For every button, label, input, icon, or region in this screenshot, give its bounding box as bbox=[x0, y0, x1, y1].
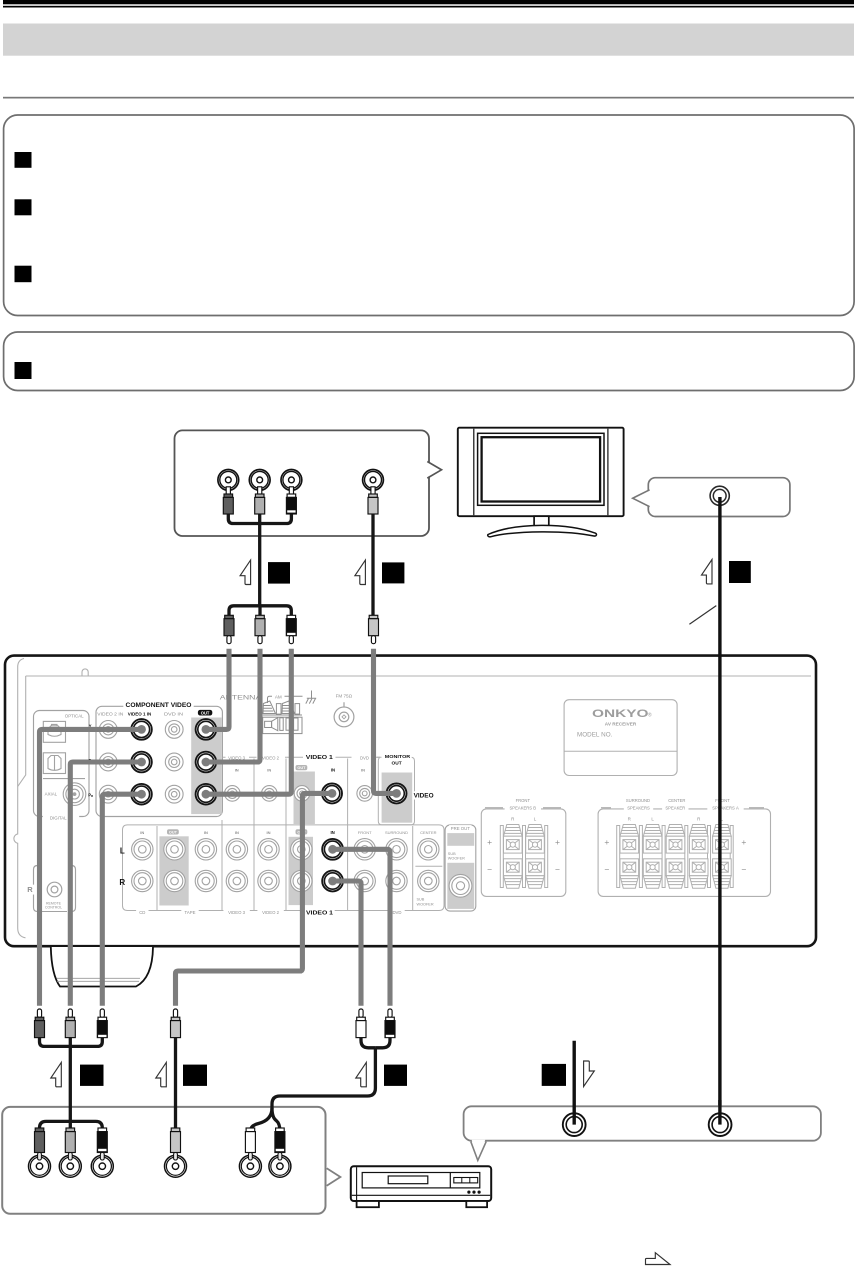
audio gray jacks bbox=[132, 839, 153, 860]
svg-text:SPEAKERS A: SPEAKERS A bbox=[712, 805, 739, 810]
antenna jack 1 bbox=[563, 1113, 586, 1136]
svg-text:IN: IN bbox=[267, 767, 271, 772]
audio cable merge + route to DVD box bbox=[361, 1037, 375, 1048]
plug audio R box (black) bbox=[275, 1128, 285, 1160]
composite gray jacks bbox=[225, 786, 241, 802]
component active jacks VIDEO1 IN + OUT bbox=[131, 719, 152, 740]
composite cable down bbox=[174, 1037, 177, 1131]
plug audio L up (white) bbox=[356, 1009, 366, 1038]
plug video down bbox=[369, 615, 379, 643]
plug PB up bbox=[65, 1009, 75, 1038]
plug Y (dark) bbox=[223, 487, 233, 514]
svg-text:ONKYO: ONKYO bbox=[592, 708, 649, 720]
top rule thick bbox=[3, 0, 854, 4]
svg-text:−: − bbox=[487, 865, 492, 875]
svg-text:SUB: SUB bbox=[417, 898, 425, 902]
plug PR box bbox=[97, 1128, 107, 1160]
svg-text:IN: IN bbox=[331, 767, 335, 772]
step label A (component) bbox=[240, 560, 251, 584]
svg-text:SURROUND: SURROUND bbox=[385, 830, 408, 835]
cable: component PR IN bbox=[102, 794, 141, 1006]
svg-text:PR: PR bbox=[88, 792, 94, 798]
svg-text:VIDEO 1 IN: VIDEO 1 IN bbox=[128, 711, 152, 716]
svg-text:+: + bbox=[604, 837, 609, 847]
svg-text:VIDEO 1: VIDEO 1 bbox=[306, 911, 333, 917]
component split in box bbox=[40, 1121, 103, 1129]
REMOTE CONTROL block bbox=[25, 866, 75, 912]
svg-text:VIDEO 3: VIDEO 3 bbox=[228, 910, 246, 915]
svg-text:R: R bbox=[119, 878, 125, 887]
audio active jacks VIDEO1 IN bbox=[322, 839, 343, 860]
component cable (TV end): bundle bbox=[228, 514, 291, 524]
svg-text:−: − bbox=[741, 865, 746, 875]
svg-text:SUB: SUB bbox=[448, 852, 456, 856]
FM 75ohm jack bbox=[334, 694, 354, 727]
svg-text:WOOFER: WOOFER bbox=[417, 903, 434, 907]
antenna long cable end over jack2 bbox=[718, 1100, 721, 1125]
bullet 3 bbox=[15, 266, 32, 283]
svg-text:FRONT: FRONT bbox=[516, 798, 531, 803]
svg-text:DVD IN: DVD IN bbox=[164, 711, 183, 716]
FRONT SPEAKERS B group bbox=[481, 798, 566, 896]
svg-text:−: − bbox=[555, 865, 560, 875]
ONKYO nameplate bbox=[564, 700, 677, 776]
svg-text:ANTENNA: ANTENNA bbox=[220, 694, 263, 701]
svg-text:OPTICAL: OPTICAL bbox=[65, 714, 84, 719]
svg-text:VIDEO 2: VIDEO 2 bbox=[262, 910, 280, 915]
svg-text:IN: IN bbox=[140, 830, 144, 835]
svg-text:AXIAL: AXIAL bbox=[45, 792, 58, 797]
svg-text:OUT: OUT bbox=[169, 831, 178, 835]
plug Y down bbox=[224, 615, 234, 643]
plug Y up bbox=[35, 1009, 45, 1038]
cable: monitor out video stub bbox=[374, 649, 397, 794]
svg-text:SURROUND: SURROUND bbox=[626, 798, 650, 803]
callout box: DVD player outputs bbox=[2, 1107, 325, 1214]
cable: component Y OUT stub bbox=[206, 649, 229, 730]
component cable splitter above receiver bbox=[229, 606, 291, 616]
step label D (component, bottom) bbox=[51, 1062, 62, 1086]
plug composite up bbox=[171, 1009, 181, 1038]
svg-text:VIDEO 1: VIDEO 1 bbox=[306, 755, 333, 761]
plug audio L box (white) bbox=[245, 1128, 255, 1160]
svg-text:IN: IN bbox=[235, 767, 239, 772]
gray plug caps in active jacks bbox=[202, 725, 211, 734]
plug audio R up (black) bbox=[385, 1009, 395, 1038]
svg-text:CENTER: CENTER bbox=[668, 798, 685, 803]
DVD player illustration bbox=[351, 1166, 491, 1207]
heading bar bbox=[3, 24, 854, 56]
cable: component Y IN bbox=[40, 729, 142, 1005]
VIDEO label (monitor) bbox=[413, 791, 435, 799]
svg-text:DVD: DVD bbox=[360, 755, 369, 760]
PRE OUT box bbox=[445, 825, 476, 911]
top rule thin bbox=[3, 6, 854, 8]
cable: component PB IN bbox=[70, 762, 141, 1006]
callout box: TV component + video inputs bbox=[175, 430, 430, 536]
antenna stub cable into jack1 bbox=[573, 1041, 576, 1125]
step label B (video) bbox=[355, 560, 366, 584]
bullet 1 bbox=[15, 152, 32, 168]
cable: component PR OUT stub bbox=[206, 649, 291, 794]
svg-text:AV RECEIVER: AV RECEIVER bbox=[605, 722, 637, 727]
svg-text:IN: IN bbox=[361, 767, 365, 772]
svg-text:IN: IN bbox=[204, 830, 208, 835]
SURROUND/CENTER/FRONT A speaker group bbox=[598, 798, 770, 896]
svg-text:CONTROL: CONTROL bbox=[45, 906, 62, 910]
svg-text:PRE OUT: PRE OUT bbox=[451, 826, 470, 831]
plug PB (gray) bbox=[255, 487, 265, 514]
audio section box bbox=[123, 825, 445, 911]
antenna cable leader line bbox=[689, 606, 716, 625]
step label F (audio, bottom) bbox=[356, 1062, 367, 1086]
panel inner contour bbox=[14, 659, 26, 938]
svg-text:+: + bbox=[487, 837, 492, 847]
svg-text:VIDEO: VIDEO bbox=[414, 793, 434, 800]
step label G (antenna, bottom) bbox=[542, 1064, 566, 1086]
cable: audio VIDEO1 IN L bbox=[333, 849, 390, 1005]
step label E (video, bottom) bbox=[156, 1062, 167, 1086]
plug composite box bbox=[171, 1128, 181, 1160]
svg-text:CENTER: CENTER bbox=[420, 830, 437, 835]
bullet 4 bbox=[15, 362, 32, 379]
svg-text:VIDEO 2: VIDEO 2 bbox=[262, 755, 280, 760]
svg-text:AM: AM bbox=[275, 695, 282, 700]
antenna cable (long) bbox=[718, 497, 721, 1123]
bottom group labels bbox=[136, 909, 148, 916]
component gray jacks (VIDEO2 IN / DVD IN) bbox=[99, 721, 117, 739]
svg-text:SPEAKERS B: SPEAKERS B bbox=[510, 805, 537, 810]
antenna jack 2 bbox=[709, 1113, 732, 1136]
COMPONENT VIDEO group box bbox=[88, 701, 222, 817]
video cable (TV end) bbox=[371, 514, 374, 616]
plug PR up bbox=[97, 1009, 107, 1038]
DIGITAL IN block bbox=[34, 711, 90, 822]
svg-text:IN: IN bbox=[235, 830, 239, 835]
cable: audio VIDEO1 IN R bbox=[333, 881, 361, 1006]
svg-text:L: L bbox=[120, 846, 125, 855]
plug PR down bbox=[286, 615, 296, 643]
OUT tag (component) bbox=[198, 710, 212, 716]
svg-text:+: + bbox=[741, 837, 746, 847]
svg-text:®: ® bbox=[648, 711, 652, 718]
svg-text:IN: IN bbox=[267, 830, 271, 835]
svg-text:R: R bbox=[27, 885, 33, 894]
section rule bbox=[3, 97, 854, 99]
svg-text:FRONT: FRONT bbox=[358, 830, 372, 835]
svg-text:CD: CD bbox=[139, 910, 145, 915]
svg-text:TAPE: TAPE bbox=[185, 910, 196, 915]
highlights: composite V1 OUT + MONITOR OUT + audio TAPE/V1 OUT bbox=[294, 772, 315, 825]
svg-text:OUT: OUT bbox=[201, 710, 210, 715]
svg-text:−: − bbox=[604, 865, 609, 875]
note box 1 bbox=[4, 115, 855, 316]
DVD box jacks bbox=[29, 1155, 51, 1177]
svg-text:MODEL NO.: MODEL NO. bbox=[577, 731, 613, 738]
note box 2 bbox=[4, 332, 855, 391]
component cable bundle (bottom) bbox=[40, 1037, 103, 1046]
svg-text:+: + bbox=[555, 837, 560, 847]
svg-text:FM 75Ω: FM 75Ω bbox=[336, 694, 353, 699]
page-bottom continue arrow bbox=[646, 1253, 671, 1265]
callout box: antenna jacks (bottom right) bbox=[464, 1106, 821, 1140]
jack field dividers bbox=[157, 759, 413, 911]
callout box: antenna wall outlet bbox=[648, 478, 790, 517]
TV jacks Y/PB/PR + video in bbox=[218, 470, 239, 491]
svg-text:COMPONENT VIDEO: COMPONENT VIDEO bbox=[126, 702, 192, 709]
svg-text:FRONT: FRONT bbox=[715, 798, 730, 803]
AM terminal block bbox=[263, 695, 303, 734]
svg-text:SPEAKER: SPEAKER bbox=[665, 805, 685, 810]
svg-text:OUT: OUT bbox=[392, 760, 402, 766]
OUT column highlight bbox=[191, 718, 222, 815]
panel top notch bbox=[82, 669, 88, 676]
svg-text:OUT: OUT bbox=[297, 766, 306, 770]
composite active jacks: VIDEO1 IN + MONITOR OUT bbox=[322, 783, 342, 803]
antenna outlet jack bbox=[710, 486, 729, 505]
svg-text:MONITOR: MONITOR bbox=[385, 754, 411, 760]
cable: component PB OUT stub bbox=[206, 649, 260, 762]
chassis ground symbol bbox=[306, 691, 316, 704]
plug Y box bbox=[35, 1128, 45, 1160]
svg-text:VIDEO 2 IN: VIDEO 2 IN bbox=[97, 711, 123, 716]
composite top bracket dashes bbox=[223, 757, 415, 825]
receiver foot bbox=[51, 947, 153, 987]
svg-text:WOOFER: WOOFER bbox=[448, 857, 465, 861]
CENTER column divider line bbox=[415, 865, 442, 867]
plug video (light) bbox=[368, 487, 378, 514]
step label C (antenna) bbox=[702, 560, 713, 584]
plug PB box bbox=[65, 1128, 75, 1160]
receiver rear panel outline bbox=[5, 656, 816, 947]
svg-text:IN: IN bbox=[330, 830, 334, 835]
bullet 2 bbox=[15, 199, 32, 215]
cable: composite VIDEO1 IN bbox=[176, 793, 333, 1005]
svg-text:DVD: DVD bbox=[392, 910, 401, 915]
plug PR (black) bbox=[286, 487, 296, 514]
plug PB down bbox=[255, 615, 265, 643]
TV illustration bbox=[458, 428, 624, 537]
svg-text:SPEAKERS: SPEAKERS bbox=[627, 805, 650, 810]
